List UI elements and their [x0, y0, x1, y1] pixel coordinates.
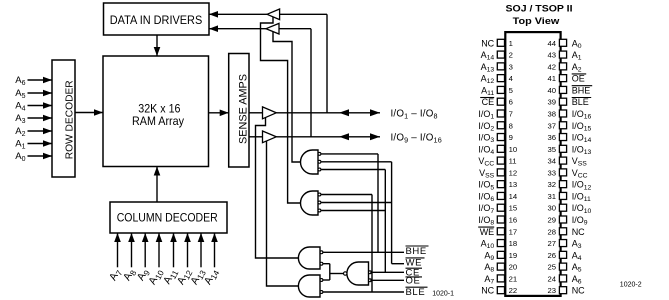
svg-text:44: 44 [547, 39, 556, 48]
svg-text:19: 19 [509, 251, 518, 260]
svg-text:18: 18 [509, 239, 518, 248]
svg-text:39: 39 [547, 98, 556, 107]
svg-text:12: 12 [509, 168, 518, 177]
svg-text:30: 30 [547, 204, 556, 213]
svg-text:1020-2: 1020-2 [620, 282, 642, 289]
svg-text:43: 43 [547, 51, 556, 60]
svg-text:5: 5 [509, 86, 513, 95]
svg-text:37: 37 [547, 121, 556, 130]
svg-text:1: 1 [509, 39, 513, 48]
svg-text:NC: NC [572, 227, 585, 237]
svg-text:WE: WE [480, 227, 495, 237]
svg-text:Top View: Top View [513, 16, 560, 26]
svg-text:15: 15 [509, 204, 518, 213]
svg-text:COLUMN DECODER: COLUMN DECODER [117, 210, 218, 224]
svg-text:8: 8 [509, 121, 513, 130]
svg-text:35: 35 [547, 145, 556, 154]
svg-text:23: 23 [547, 286, 556, 295]
svg-text:OE: OE [572, 74, 585, 84]
svg-text:41: 41 [547, 74, 556, 83]
svg-text:BHE: BHE [406, 246, 427, 257]
svg-text:NC: NC [572, 286, 585, 296]
svg-text:7: 7 [509, 109, 513, 118]
svg-text:BLE: BLE [572, 97, 589, 107]
svg-text:31: 31 [547, 192, 556, 201]
svg-text:10: 10 [509, 145, 518, 154]
svg-text:NC: NC [481, 38, 494, 48]
svg-text:NC: NC [481, 286, 494, 296]
svg-text:21: 21 [509, 274, 518, 283]
svg-text:33: 33 [547, 168, 556, 177]
svg-text:26: 26 [547, 251, 556, 260]
svg-text:2: 2 [509, 51, 513, 60]
svg-text:13: 13 [509, 180, 518, 189]
svg-text:CE: CE [482, 97, 495, 107]
svg-text:32: 32 [547, 180, 556, 189]
svg-text:SENSE AMPS: SENSE AMPS [237, 74, 249, 144]
svg-text:24: 24 [547, 274, 556, 283]
svg-text:BHE: BHE [572, 85, 591, 95]
svg-text:ROW DECODER: ROW DECODER [65, 80, 76, 159]
svg-text:BLE: BLE [406, 287, 426, 298]
svg-text:I/O1 – I/O8: I/O1 – I/O8 [391, 108, 438, 120]
svg-text:11: 11 [509, 157, 517, 166]
svg-text:3: 3 [509, 62, 513, 71]
svg-text:38: 38 [547, 109, 556, 118]
svg-text:16: 16 [509, 216, 518, 225]
svg-text:RAM Array: RAM Array [132, 114, 185, 128]
svg-text:DATA IN DRIVERS: DATA IN DRIVERS [110, 13, 203, 27]
svg-text:17: 17 [509, 227, 518, 236]
svg-text:9: 9 [509, 133, 513, 142]
svg-text:1020-1: 1020-1 [432, 290, 454, 297]
svg-text:22: 22 [509, 286, 518, 295]
svg-text:4: 4 [509, 74, 514, 83]
svg-text:27: 27 [547, 239, 556, 248]
svg-text:34: 34 [547, 157, 556, 166]
svg-text:29: 29 [547, 216, 556, 225]
svg-text:SOJ / TSOP II: SOJ / TSOP II [506, 4, 573, 15]
svg-text:20: 20 [509, 263, 518, 272]
svg-text:40: 40 [547, 86, 556, 95]
svg-text:25: 25 [547, 263, 556, 272]
svg-text:42: 42 [547, 62, 556, 71]
svg-text:28: 28 [547, 227, 556, 236]
svg-text:6: 6 [509, 98, 513, 107]
svg-text:36: 36 [547, 133, 556, 142]
svg-text:14: 14 [509, 192, 518, 201]
